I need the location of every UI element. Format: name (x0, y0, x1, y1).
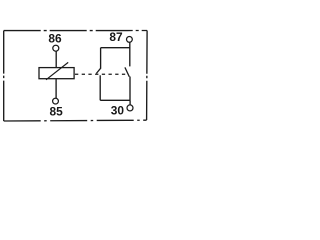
relay housing top border (dash-dot) (4, 30, 147, 32)
wire bottom crossbar (100, 99, 130, 101)
svg-text:85: 85 (49, 105, 63, 119)
svg-text:30: 30 (111, 103, 125, 117)
wire 86 to coil (55, 51, 57, 67)
terminal 86 (53, 45, 59, 51)
wire left contact upper (100, 48, 102, 69)
relay housing right border (dash-dot) (146, 31, 149, 121)
relay housing bottom border (dash-dot) (4, 119, 147, 122)
contact blade right (125, 67, 129, 76)
actuator linkage (dashed) (75, 73, 127, 75)
contact blade left (96, 68, 101, 73)
svg-text:87: 87 (109, 30, 123, 44)
relay coil (39, 68, 74, 79)
coil diagonal (46, 62, 68, 79)
wire right contact lower (129, 77, 131, 101)
wire coil to 85 (55, 79, 57, 98)
svg-text:86: 86 (48, 32, 62, 46)
terminal 85 (53, 98, 59, 104)
terminal 30 (127, 105, 133, 111)
wire to terminal 30 (129, 100, 131, 105)
terminal 87 (126, 37, 132, 43)
wire top crossbar (101, 47, 130, 49)
wire 87 down to contact (129, 42, 131, 66)
wire left contact lower (99, 75, 101, 100)
relay housing left border (dash-dot) (3, 31, 5, 121)
